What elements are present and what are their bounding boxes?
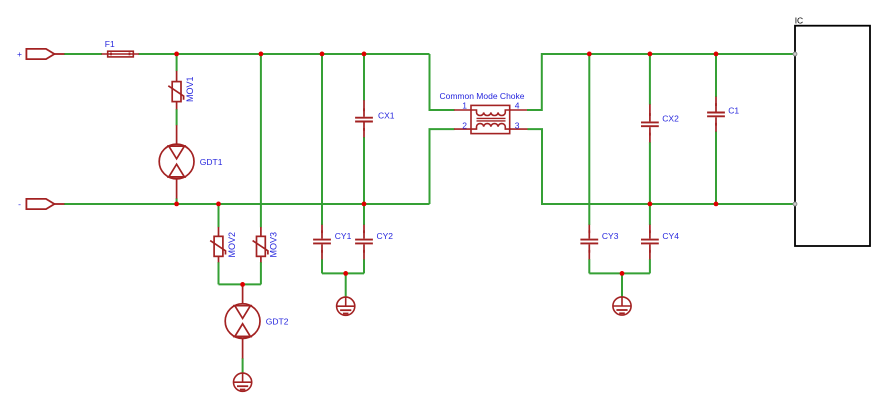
connector tag - bbox=[26, 199, 64, 209]
svg-text:CY2: CY2 bbox=[377, 231, 394, 241]
wire CY3 to join bbox=[588, 259, 590, 273]
svg-text:MOV1: MOV1 bbox=[185, 76, 195, 102]
svg-text:IC: IC bbox=[795, 16, 804, 26]
ground symbol below CY1/CY2 bbox=[337, 297, 355, 315]
node top CY1 bbox=[320, 52, 325, 57]
CY2 pin marks bbox=[363, 230, 365, 233]
wire CY1/CY2 join bbox=[322, 272, 364, 274]
node MOV join GDT2 bbox=[240, 282, 245, 287]
wire top rail down to MOV3 bbox=[260, 54, 262, 227]
IC pin connection bottom bbox=[793, 202, 797, 206]
wire C1 to bottom rail bbox=[715, 131, 717, 204]
svg-text:GDT2: GDT2 bbox=[266, 316, 289, 326]
svg-text:CY1: CY1 bbox=[335, 231, 352, 241]
IC block bbox=[795, 26, 870, 246]
ground symbol below GDT2 bbox=[234, 373, 252, 391]
wire top rail to C1 bbox=[715, 54, 717, 97]
wire MOV join to GDT2 bbox=[219, 283, 261, 285]
wire CY12 ground stem bbox=[345, 273, 347, 297]
gas discharge tube GDT2 bbox=[225, 284, 260, 358]
ground symbol below CY3/CY4 bbox=[613, 297, 631, 315]
common mode choke L1 bbox=[454, 105, 528, 133]
wire bottom main rail bbox=[64, 203, 430, 205]
svg-text:4: 4 bbox=[515, 101, 520, 111]
wire choke pin 4 to top right rail bbox=[527, 54, 795, 110]
wire CY2 to join bbox=[363, 259, 365, 273]
svg-text:2: 2 bbox=[462, 120, 467, 130]
wire GDT1 to bottom rail bbox=[176, 198, 178, 204]
wire riser to choke pin 2 bbox=[430, 129, 455, 204]
node top CY3 bbox=[587, 52, 592, 57]
wire top rail to MOV1 bbox=[176, 54, 178, 71]
capacitor CY3 bbox=[580, 225, 598, 260]
wire CY3/CY4 join bbox=[589, 272, 650, 274]
IC pin connection top bbox=[793, 52, 797, 56]
svg-text:Common Mode Choke: Common Mode Choke bbox=[439, 91, 524, 101]
svg-text:C1: C1 bbox=[728, 106, 739, 116]
node bottom CX2/CY4 bbox=[648, 202, 653, 207]
connector tag + bbox=[26, 49, 64, 59]
node top F1/MOV1 bbox=[174, 52, 179, 57]
wire MOV2 to join bbox=[218, 262, 220, 284]
svg-text:3: 3 bbox=[515, 120, 520, 130]
CY4 pin marks bbox=[649, 230, 651, 233]
wire bottom rail to MOV2 bbox=[218, 204, 220, 227]
wire MOV1 to GDT1 bbox=[176, 109, 178, 125]
wire CY4 to join bbox=[649, 259, 651, 273]
svg-text:MOV3: MOV3 bbox=[269, 232, 279, 258]
svg-text:CY4: CY4 bbox=[662, 231, 679, 241]
node bottom GDT1 bbox=[174, 202, 179, 207]
wire CY34 ground stem bbox=[621, 273, 623, 297]
wire top main rail fuse to choke riser bbox=[139, 53, 430, 55]
node CY12 ground bbox=[343, 271, 348, 276]
capacitor C1 bbox=[707, 97, 725, 132]
wire top rail down to CY1 bbox=[321, 54, 323, 225]
varistor MOV2 bbox=[210, 227, 225, 262]
capacitor CY2 bbox=[355, 225, 373, 260]
capacitor CX1 bbox=[355, 100, 373, 137]
svg-text:1: 1 bbox=[462, 101, 467, 111]
varistor MOV3 bbox=[253, 227, 268, 262]
wire top rail to CX1 bbox=[363, 54, 365, 101]
svg-text:MOV2: MOV2 bbox=[227, 232, 237, 258]
wire riser to choke pin 1 bbox=[430, 54, 455, 110]
node top CX2 bbox=[648, 52, 653, 57]
wire CX2 to bottom rail and CY4 bbox=[649, 142, 651, 225]
svg-text:F1: F1 bbox=[105, 39, 115, 49]
fuse pin marks bbox=[110, 53, 717, 253]
node CY34 ground bbox=[620, 271, 625, 276]
node top MOV3 bbox=[259, 52, 264, 57]
varistor MOV1 bbox=[168, 71, 183, 109]
wire choke pin 3 to bottom right rail bbox=[528, 129, 796, 204]
wire top rail down to CY3 bbox=[588, 54, 590, 225]
svg-text:+: + bbox=[17, 49, 22, 59]
svg-text:CX1: CX1 bbox=[378, 110, 395, 120]
svg-text:GDT1: GDT1 bbox=[200, 157, 223, 167]
wire CX1 to bottom rail and CY2 bbox=[363, 137, 365, 225]
wire CY1 to join bbox=[321, 259, 323, 273]
svg-text:-: - bbox=[18, 199, 21, 209]
node bottom CX1/CY2 bbox=[362, 202, 367, 207]
capacitor CY4 bbox=[641, 225, 659, 260]
node top CX1 bbox=[362, 52, 367, 57]
CY3 pin marks bbox=[588, 230, 590, 233]
node top C1 bbox=[714, 52, 719, 57]
CX1 pin marks bbox=[363, 108, 365, 111]
wire top rail to CX2 bbox=[649, 54, 651, 105]
capacitor CX2 bbox=[641, 104, 659, 142]
node bottom C1 bbox=[714, 202, 719, 207]
gas discharge tube GDT1 bbox=[159, 125, 194, 199]
capacitor CY1 bbox=[313, 225, 331, 260]
wire MOV3 to join bbox=[260, 262, 262, 284]
CY1 pin marks bbox=[321, 230, 323, 233]
C1 pin marks bbox=[715, 103, 717, 106]
wire top main rail left of fuse bbox=[64, 53, 102, 55]
node bottom MOV2 bbox=[216, 202, 221, 207]
CX2 pin marks bbox=[649, 113, 651, 116]
wire GDT2 to ground bbox=[242, 358, 244, 373]
svg-text:CX2: CX2 bbox=[662, 114, 679, 124]
fuse F1 bbox=[102, 51, 140, 57]
svg-text:CY3: CY3 bbox=[602, 231, 619, 241]
